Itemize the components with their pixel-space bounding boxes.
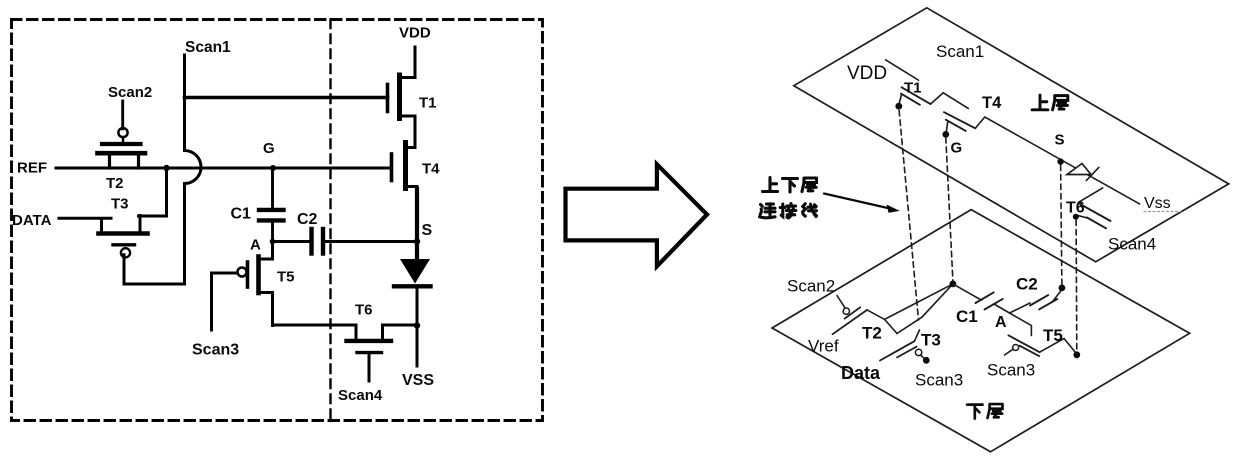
wire dashed via 4 (T6 to T5) (1075, 220, 1078, 352)
svg-text:T4: T4 (982, 94, 1002, 112)
capacitor C1 (lower) (956, 292, 1003, 326)
node C2 junction dot (1059, 285, 1066, 292)
wire dashed via 3 (S to C2) (1061, 165, 1062, 285)
svg-text:C1: C1 (956, 307, 978, 326)
node Scan3 dot (lower left) (923, 357, 930, 364)
transistor T2 (98, 128, 146, 192)
svg-text:T5: T5 (1043, 326, 1063, 345)
svg-text:Scan3: Scan3 (987, 361, 1035, 380)
node G junction dot (270, 165, 276, 171)
svg-text:S: S (1055, 132, 1065, 149)
svg-text:Scan2: Scan2 (787, 277, 835, 296)
wire A to C2 (273, 240, 311, 243)
node T1 via dot (895, 103, 902, 110)
wire C2 to S (325, 240, 418, 243)
svg-text:S: S (422, 222, 433, 239)
node C1 junction dot (950, 281, 957, 288)
svg-text:G: G (951, 140, 963, 157)
wire DATA to T3 (59, 217, 111, 220)
svg-text:C2: C2 (297, 211, 318, 228)
big hollow arrow (566, 164, 708, 266)
lower layer plane (772, 210, 1190, 452)
svg-text:Scan1: Scan1 (185, 39, 231, 56)
svg-text:T1: T1 (904, 80, 922, 97)
transistor T6 (upper) (1066, 188, 1111, 228)
wire REF to T2 (56, 167, 110, 170)
annotation arrow to dashed lines (824, 194, 900, 213)
wire VDD to T1 (886, 60, 919, 80)
dashed divider line (329, 20, 331, 421)
svg-text:T2: T2 (862, 324, 882, 343)
transistor T4 (392, 143, 441, 193)
node S junction dot (414, 238, 420, 244)
svg-text:Scan4: Scan4 (338, 387, 383, 404)
transistor T1 (388, 47, 437, 148)
wire T5 gate to Scan3 (212, 273, 238, 330)
label upper-layer (shang ceng) (1032, 95, 1068, 110)
svg-text:VSS: VSS (402, 372, 434, 389)
node S via dot (1057, 158, 1063, 164)
node G via dot (942, 131, 949, 138)
node T5 via dot (1073, 351, 1080, 358)
wire T5 source to T6 (273, 325, 357, 339)
wire Scan1 lower vertical to T3 gate (124, 184, 185, 285)
svg-text:A: A (250, 237, 261, 254)
svg-text:A: A (995, 314, 1007, 331)
wire C2 to S junction (1053, 290, 1062, 302)
wire T4 source to S node (415, 189, 419, 242)
svg-text:T2: T2 (106, 175, 124, 192)
svg-text:Scan4: Scan4 (1108, 235, 1156, 254)
dashed enclosure border (12, 20, 543, 421)
wire G to C1 (271, 168, 274, 208)
transistor T5 (238, 242, 295, 326)
wire T1 to T4 (931, 93, 969, 109)
capacitor C2 (297, 211, 323, 254)
capacitor C2 (lower) (1016, 275, 1057, 310)
wire Scan2 lead (121, 101, 124, 129)
wire Scan1 to T1 gate (185, 96, 388, 100)
wire Scan1 hop over G row (185, 151, 202, 184)
wire Vss dotted underline (1144, 211, 1181, 213)
wire LED cathode to VSS (416, 288, 419, 366)
svg-text:Vref: Vref (808, 337, 839, 356)
svg-text:T3: T3 (921, 331, 941, 350)
transistor T4 (upper) (944, 94, 1002, 132)
svg-text:T4: T4 (422, 161, 440, 178)
wire T3 drain to C1 junction (897, 284, 953, 341)
wire dashed via 1 (T1 to lower) (899, 111, 918, 321)
wire dashed via 2 (G to C1) (946, 138, 953, 282)
wire Scan2 to T2 gate (837, 296, 845, 309)
wire A to C2 (1010, 303, 1031, 313)
svg-text:C2: C2 (1016, 275, 1038, 294)
transistor T2 (lower) (833, 307, 882, 342)
label annotation (shang xia ceng / lian jie xian) (760, 178, 817, 219)
transistor T3 (99, 196, 148, 258)
svg-text:C1: C1 (231, 206, 252, 223)
led D1 (394, 242, 431, 287)
wire T5 gate to Scan3 (1005, 349, 1013, 355)
wire C1 to node A (271, 223, 274, 242)
wire T2 to T3 link (885, 319, 898, 333)
led D1 (upper) (1067, 164, 1099, 181)
node T6 via dot (1073, 214, 1079, 220)
svg-text:Scan1: Scan1 (936, 42, 984, 61)
svg-text:T1: T1 (419, 95, 437, 112)
node T6 junction dot (414, 322, 420, 328)
transistor T6 (347, 302, 418, 382)
svg-text:VDD: VDD (847, 63, 887, 84)
label lower-layer (xia ceng) (967, 404, 1002, 418)
svg-text:T6: T6 (355, 302, 373, 319)
svg-text:Scan3: Scan3 (192, 342, 239, 359)
svg-text:VDD: VDD (399, 25, 431, 42)
wire C1 to node A to T5 (994, 304, 1031, 336)
svg-text:DATA: DATA (12, 212, 52, 229)
wire G row (T2 drain to T4 gate) (101, 167, 392, 170)
svg-text:Data: Data (841, 363, 881, 383)
wire C1 junction to C1 (953, 284, 982, 300)
svg-text:REF: REF (17, 160, 47, 177)
wire Scan1 vertical (183, 55, 186, 151)
svg-text:T5: T5 (277, 269, 295, 286)
svg-text:Vss: Vss (1144, 195, 1171, 212)
svg-text:Scan2: Scan2 (108, 84, 152, 101)
wire T2 drain to C1 junction (867, 284, 953, 320)
node A junction dot (270, 239, 276, 245)
node junction T3 drain (163, 165, 169, 171)
transistor T5 (lower) (1008, 326, 1062, 356)
upper layer plane (794, 8, 1229, 262)
svg-text:T3: T3 (111, 196, 129, 213)
svg-text:G: G (263, 140, 275, 157)
wire T5 drain to via dot (1040, 339, 1077, 354)
wire T3 drain to G row (139, 168, 167, 216)
capacitor C1 (231, 206, 284, 223)
wire T3 gate to Scan3 dot (921, 355, 926, 359)
wire T4 to S and Vss (975, 117, 1139, 204)
transistor T3 (lower) (880, 331, 941, 361)
svg-text:Scan3: Scan3 (915, 371, 963, 390)
transistor T1 (upper) (899, 80, 930, 105)
